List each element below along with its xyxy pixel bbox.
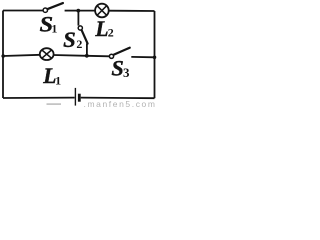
- svg-text:2: 2: [108, 26, 114, 40]
- svg-text:1: 1: [55, 74, 61, 88]
- wire node A to lamp L2: [78, 10, 95, 12]
- svg-text:S: S: [111, 56, 123, 81]
- svg-text:1: 1: [51, 21, 57, 35]
- label S3: [111, 56, 130, 81]
- svg-text:.manfen5.com: .manfen5.com: [84, 99, 157, 109]
- label L1: [42, 63, 61, 88]
- node B (junction dot, left middle): [1, 54, 5, 58]
- node A (junction dot, top of S2): [76, 9, 80, 13]
- label L2: [94, 16, 113, 41]
- wire node C to S3: [87, 55, 110, 58]
- wire battery to bottom-right: [81, 97, 155, 100]
- wire S1 to node A: [65, 10, 79, 12]
- label S1: [40, 11, 58, 36]
- switch S3: [109, 48, 129, 59]
- svg-text:L: L: [94, 16, 108, 41]
- wire right vertical: [154, 11, 156, 98]
- battery: [75, 88, 79, 106]
- wire middle-left to lamp L1: [3, 55, 40, 56]
- switch S1: [43, 3, 63, 12]
- wire S3 to right edge: [131, 56, 154, 58]
- switch S2 (vertical, between node A and node C): [78, 11, 87, 56]
- wire lamp L1 to node C: [53, 54, 87, 57]
- wire bottom-left to battery: [3, 97, 75, 99]
- lamp L2: [95, 4, 109, 18]
- label S2: [63, 27, 82, 52]
- wire top-left segment: [3, 10, 43, 12]
- lamp L1: [40, 48, 54, 60]
- svg-text:S: S: [63, 27, 76, 52]
- watermark dash: [47, 103, 62, 105]
- node C (junction dot, bottom of S2): [85, 54, 89, 58]
- svg-text:2: 2: [76, 37, 82, 51]
- node D (junction dot, right middle): [153, 56, 157, 60]
- wire left vertical: [2, 11, 4, 99]
- svg-text:3: 3: [123, 65, 130, 80]
- wire lamp L2 to top-right corner: [109, 10, 155, 12]
